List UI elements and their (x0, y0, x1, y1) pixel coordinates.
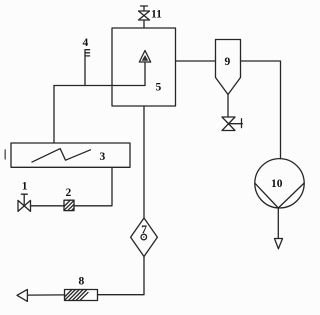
wire: dryer 2 to valve 1 (31, 205, 65, 207)
valve 11 (139, 6, 150, 28)
igniter electrode 4 (85, 50, 90, 86)
scan artifact at left edge (4, 150, 6, 159)
silencer 8 (65, 290, 98, 301)
vessel 5 (chamber) (112, 28, 176, 106)
valve 1 (18, 194, 31, 211)
burner nozzle in vessel 5 (139, 51, 150, 86)
svg-text:8: 8 (79, 276, 85, 288)
wire: down to heater 3 (53, 86, 55, 144)
wire: separator 9 to pump 10 (241, 61, 281, 159)
filter 7 (diamond) (131, 218, 158, 257)
wire: heater 3 bottom to dryer 2 (74, 167, 112, 206)
svg-text:3: 3 (100, 151, 106, 163)
wire: vessel 5 bottom to filter 7 (143, 106, 145, 218)
dryer 2 (64, 200, 74, 210)
svg-text:10: 10 (271, 178, 283, 190)
svg-text:9: 9 (225, 56, 231, 68)
arrow: pump discharge (275, 239, 283, 249)
wire: vessel 5 to separator 9 (176, 60, 216, 62)
wire: silencer 8 to exhaust arrow (28, 294, 65, 296)
svg-text:5: 5 (156, 82, 162, 94)
arrow: exhaust outlet (17, 289, 27, 301)
svg-text:7: 7 (141, 224, 147, 236)
drain valve (below 9) (222, 117, 242, 131)
wire: separator tip to drain valve (227, 95, 229, 118)
wire: pump outlet (277, 208, 279, 239)
svg-text:2: 2 (66, 187, 72, 199)
svg-text:4: 4 (83, 37, 89, 49)
svg-text:1: 1 (22, 181, 28, 193)
heater 3 (11, 143, 130, 167)
svg-text:11: 11 (151, 9, 162, 21)
pump 10 (255, 159, 304, 208)
wire: filter 7 down and left to silencer 8 (98, 257, 145, 295)
separator 9 (216, 40, 241, 95)
wire: fuel line into vessel 5 (54, 85, 145, 87)
